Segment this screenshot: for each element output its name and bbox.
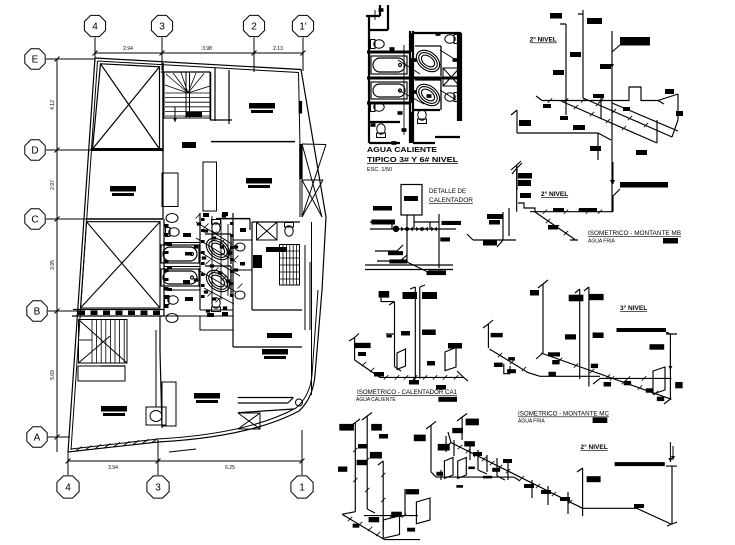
washer box bottom: [146, 407, 166, 425]
iso D label: [448, 343, 462, 349]
iso F label: [358, 444, 367, 449]
iso C label: [591, 364, 598, 368]
wall right rooms left: [251, 222, 253, 310]
bed mid-right room: [246, 178, 272, 188]
iso B label: [487, 214, 503, 219]
svg-text:4: 4: [92, 22, 98, 33]
bed left-middle room: [110, 186, 136, 196]
wall washer room right: [232, 310, 234, 347]
bathroom wall center-left: [199, 213, 201, 310]
svg-text:CALENTADOR: CALENTADOR: [429, 197, 474, 204]
ac corner shower 1: [412, 46, 444, 76]
pipe riser dots bathroom left: [165, 218, 234, 308]
iso A label: [623, 107, 630, 111]
iso F label: [379, 434, 388, 439]
bathroom cross ticks: [196, 214, 243, 303]
iso B label: [489, 220, 500, 225]
iso E label: [473, 452, 482, 456]
closet pier center: [203, 162, 217, 211]
wall right pier: [304, 245, 306, 330]
iso A label: [600, 64, 611, 69]
ac valve marks: [371, 8, 458, 145]
bathroom wall bottom: [200, 309, 233, 311]
svg-text:D: D: [31, 146, 38, 157]
sink left lower: [166, 314, 178, 323]
iso A label: [553, 70, 564, 75]
iso F label: [338, 467, 347, 472]
pipe to washer: [155, 330, 157, 407]
grid line 3 top leader: [161, 38, 163, 71]
iso E label: [541, 490, 551, 494]
bathtub lower: [161, 269, 199, 286]
iso F label: [357, 460, 368, 465]
iso B label: [483, 240, 497, 246]
svg-text:5.69: 5.69: [50, 370, 56, 380]
iso D label: [374, 372, 384, 377]
calentador label below: [427, 271, 447, 275]
svg-text:4: 4: [65, 483, 71, 494]
iso D label: [387, 335, 392, 338]
ac toilet 2: [371, 103, 385, 112]
wall duct left: [214, 68, 216, 121]
iso E label: [436, 472, 443, 476]
iso D junction ticks: [362, 362, 458, 380]
iso A label: [570, 52, 581, 57]
svg-text:2.13: 2.13: [273, 46, 283, 52]
wall bottom-middle vertical: [160, 351, 162, 428]
svg-text:ISOMETRICO - MONTANTE MC: ISOMETRICO - MONTANTE MC: [518, 411, 610, 418]
wall below duct: [210, 119, 232, 121]
iso C label diag: [548, 352, 560, 356]
iso D label: [401, 331, 410, 336]
iso A label: [593, 94, 604, 98]
bottom dimension line: [66, 459, 305, 464]
wall bottom rooms top: [233, 346, 302, 348]
grid bubble 1 bottom: [291, 476, 313, 498]
iso E label: [456, 485, 463, 488]
calentador valves: [393, 226, 437, 232]
grid line E leader: [46, 58, 95, 60]
grid line B leader: [48, 310, 80, 312]
top dimension line: [93, 51, 306, 56]
iso D pipes: [349, 285, 468, 384]
calentador label left: [372, 220, 396, 225]
closet bottom-middle: [162, 382, 176, 426]
iso C pipes: [483, 280, 677, 404]
wall room divider y142: [211, 141, 295, 143]
svg-text:DETALLE DE: DETALLE DE: [429, 188, 466, 195]
wall right rooms top: [252, 221, 300, 223]
corner shower upper: [202, 234, 234, 264]
iso C label: [593, 333, 604, 339]
iso A label: [550, 13, 562, 19]
iso A riser arrow 1: [610, 52, 614, 68]
iso C label: [604, 382, 611, 387]
staircase bottom-left: [79, 320, 128, 364]
calentador label left2: [373, 206, 392, 211]
iso E label: [524, 484, 534, 488]
shelf right room lower: [267, 333, 292, 338]
grid line C leader: [46, 218, 90, 220]
ac toilet 6: [377, 124, 386, 138]
wall C left: [86, 218, 163, 220]
wall stair top: [161, 71, 210, 73]
iso A label: [519, 120, 531, 126]
toilet center upper: [212, 220, 221, 234]
iso D label flag: [355, 343, 371, 348]
bed bottom-left room: [101, 406, 127, 416]
bathroom wall right 2: [233, 269, 252, 271]
bathroom wall center-right: [232, 213, 234, 310]
iso E label: [560, 497, 570, 501]
iso B pipes: [467, 161, 620, 247]
iso E label: [438, 444, 450, 451]
grid bubble 4 bottom: [57, 476, 79, 498]
plumbing overlay pipes bathroom: [196, 216, 240, 306]
table center hall: [182, 142, 196, 148]
svg-text:1': 1': [299, 22, 307, 33]
wall band at grid B with windows: [72, 310, 164, 317]
iso B junction ticks: [543, 210, 602, 236]
ac corner shower 2: [412, 80, 444, 110]
grid line 4 bottom leader: [67, 450, 69, 475]
iso B label: [520, 193, 531, 198]
grid bubble C: [25, 209, 45, 229]
iso E label: [503, 459, 512, 463]
left dimension line: [55, 57, 60, 453]
building inner wall line: [71, 61, 318, 450]
wall right pier2: [309, 262, 311, 330]
wall right of center y219: [216, 218, 250, 220]
iso C label: [508, 357, 515, 360]
wall center vertical upper: [162, 152, 164, 219]
iso C label: [589, 294, 604, 300]
iso D label: [409, 380, 419, 385]
wall jog: [249, 219, 251, 230]
svg-text:1: 1: [299, 483, 305, 494]
svg-text:3° NIVEL: 3° NIVEL: [620, 304, 647, 312]
sink left upper: [166, 214, 178, 223]
iso E pipes: [426, 414, 677, 527]
svg-text:3.95: 3.95: [50, 260, 56, 270]
calentador tank: [401, 185, 422, 216]
ac toilet 1: [371, 40, 385, 49]
iso D label: [403, 292, 418, 299]
iso E label: [492, 468, 500, 472]
grid line 2 top leader: [253, 38, 255, 73]
iso F label: [407, 528, 415, 532]
iso B big label: [620, 182, 668, 188]
iso C thick bar: [617, 328, 667, 332]
extra fixture marks bathroom: [167, 212, 246, 317]
building outer wall: [68, 58, 326, 452]
toilet left upper: [166, 228, 180, 237]
calentador piping: [365, 214, 456, 273]
iso A label: [587, 18, 602, 24]
ac detail bathtub 1: [371, 56, 407, 74]
x-braced duct bathroom: [257, 222, 278, 240]
sink center: [235, 243, 245, 251]
agua caliente detail walls: [366, 5, 461, 143]
iso C label: [569, 295, 584, 302]
iso B label box right: [663, 238, 678, 244]
svg-text:2.97: 2.97: [50, 180, 56, 190]
iso B riser arrow: [611, 162, 615, 184]
svg-text:3: 3: [159, 22, 165, 33]
x-braced strip bottom-left: [238, 413, 260, 429]
iso C label: [549, 372, 556, 376]
counter right room 2: [253, 255, 262, 268]
grid line 4 top leader: [94, 38, 96, 63]
svg-text:3.98: 3.98: [202, 46, 212, 52]
iso A riser arrow 2: [610, 166, 614, 184]
iso F label: [406, 489, 419, 494]
grid line 1' top leader: [302, 38, 304, 72]
bathtub upper: [161, 245, 199, 263]
iso E label: [587, 476, 601, 482]
ac toilet 5: [418, 110, 427, 124]
grid bubble D: [25, 140, 45, 160]
iso C label box right: [593, 417, 608, 423]
ac x duct: [443, 68, 460, 86]
iso E label: [464, 441, 475, 446]
wall thick D band: [91, 148, 163, 151]
iso C label: [650, 344, 665, 350]
bed top-right room: [249, 103, 275, 113]
iso C label: [565, 334, 576, 339]
grid bubble 1' top: [292, 15, 313, 36]
iso C label: [552, 360, 559, 364]
iso F label: [391, 512, 402, 517]
bathroom wall below: [164, 315, 233, 317]
x-brace small mid: [169, 449, 196, 452]
svg-text:AGUA FRIA: AGUA FRIA: [518, 419, 545, 425]
svg-text:2° NIVEL: 2° NIVEL: [530, 36, 557, 44]
iso C label: [624, 381, 631, 385]
iso D label box right: [438, 397, 457, 402]
iso C label: [530, 290, 539, 296]
iso F label: [353, 524, 360, 528]
inner right wall lower: [311, 222, 313, 395]
iso B small arrow on pipe: [578, 208, 592, 212]
ac detail bathtub 2: [371, 82, 407, 99]
svg-text:E: E: [32, 55, 39, 66]
bathroom wall tub divider 1: [164, 242, 200, 244]
toilet left lower: [165, 296, 179, 305]
iso E label: [466, 419, 479, 426]
iso C riser arrow 1: [668, 350, 672, 370]
svg-text:AGUA CALIENTE: AGUA CALIENTE: [356, 397, 396, 403]
iso A label: [636, 150, 647, 155]
toilet center lower: [212, 298, 221, 312]
bed bottom-middle room: [194, 393, 220, 403]
grid line A leader: [48, 436, 70, 438]
grid bubble 2 top: [243, 15, 264, 36]
iso A junction ticks: [548, 98, 648, 130]
iso A big label: [620, 37, 650, 46]
iso D label: [422, 292, 437, 299]
grid bubble 3 top: [151, 15, 172, 36]
iso A label: [560, 116, 568, 120]
iso A label: [543, 104, 551, 108]
iso B label: [548, 225, 558, 230]
shelf grill right room: [280, 245, 300, 286]
right wall window bars: [299, 101, 303, 179]
svg-text:ESC. 1/50: ESC. 1/50: [367, 167, 392, 173]
iso F pipes: [342, 413, 430, 540]
grid line 1 bottom leader: [301, 430, 303, 475]
iso A label: [590, 146, 601, 151]
svg-text:3: 3: [155, 483, 161, 494]
bottom edge hatch marks: [76, 438, 158, 451]
iso F junction ticks: [348, 448, 406, 536]
svg-text:C: C: [31, 215, 38, 226]
ac toilet 4: [445, 93, 459, 102]
column circle bottom-right corner: [296, 399, 303, 406]
x-braced battered right wall: [302, 144, 326, 217]
iso A label: [665, 89, 674, 94]
iso F label: [339, 424, 354, 431]
iso B label: [518, 173, 532, 179]
svg-text:2: 2: [251, 22, 257, 33]
svg-text:AGUA FRIA: AGUA FRIA: [588, 239, 615, 245]
iso C label: [657, 397, 664, 401]
svg-text:2° NIVEL: 2° NIVEL: [581, 443, 608, 451]
iso C label: [494, 363, 503, 367]
x-braced shaft left-middle: [81, 222, 161, 308]
x-braced shaft top-left: [93, 64, 160, 149]
iso E label: [483, 476, 492, 479]
wall landing bottom: [101, 365, 125, 367]
iso C junction ticks: [498, 353, 658, 395]
iso B label: [553, 208, 564, 212]
grid bubble A: [27, 427, 47, 447]
stair arrow top: [173, 107, 177, 122]
svg-text:ISOMETRICO - MONTANTE MB: ISOMETRICO - MONTANTE MB: [588, 230, 681, 237]
svg-text:B: B: [34, 307, 41, 318]
iso C label: [507, 369, 516, 373]
svg-text:2° NIVEL: 2° NIVEL: [541, 190, 568, 198]
iso D label: [358, 352, 366, 356]
grid line D leader: [46, 149, 93, 151]
corner shower lower: [202, 266, 234, 296]
wall duct right: [228, 70, 230, 124]
plumbing overlay valve dots: [194, 214, 238, 312]
iso C label: [675, 382, 682, 388]
iso A pipes: [511, 10, 678, 212]
iso A label: [573, 125, 585, 130]
iso E label: [468, 467, 475, 470]
stair landing outline: [78, 366, 125, 381]
iso D label: [379, 291, 390, 298]
calentador label right2: [440, 237, 450, 241]
wall stair left: [162, 63, 164, 152]
iso C label: [646, 388, 653, 392]
grid bubble 4 top: [84, 15, 105, 36]
iso A label: [518, 180, 531, 186]
calentador label right: [442, 221, 462, 225]
iso B label tick: [579, 208, 597, 212]
bathroom wall tub bottom: [164, 289, 200, 291]
calentador label ll2: [389, 259, 407, 263]
iso E thick bar: [615, 462, 665, 466]
counter right room: [266, 247, 287, 252]
bed bottom-right room: [262, 349, 288, 359]
svg-text:TIPICO 3# Y 6# NIVEL: TIPICO 3# Y 6# NIVEL: [367, 155, 458, 164]
grid bubble E: [25, 49, 45, 69]
wall below B: [159, 316, 161, 352]
grid line 3 bottom leader: [157, 440, 159, 475]
iso F label: [369, 517, 380, 522]
svg-text:3.94: 3.94: [108, 465, 118, 471]
iso D label: [422, 330, 436, 336]
iso E cluster ticks: [458, 445, 572, 504]
iso D label: [436, 385, 446, 390]
iso D label: [427, 361, 435, 366]
wall bath left: [163, 219, 165, 316]
iso E label: [414, 435, 426, 442]
iso E label diag: [634, 504, 644, 508]
x-brace right wall lower: [302, 180, 323, 217]
staircase top (fan + treads): [164, 72, 210, 118]
ac overlay pipes: [375, 10, 456, 140]
iso F label: [370, 452, 382, 459]
svg-text:6.25: 6.25: [225, 465, 235, 471]
iso A label: [676, 111, 683, 116]
iso E riser arrow: [671, 446, 675, 460]
ac wall black fills: [367, 33, 462, 143]
bathroom wall tub divider 2: [164, 266, 200, 268]
svg-text:4.12: 4.12: [50, 100, 56, 110]
sink center2: [235, 291, 245, 299]
grid bubble 3 bottom: [147, 476, 169, 498]
svg-text:2.94: 2.94: [123, 46, 133, 52]
bathroom lower stub: [200, 316, 233, 330]
wall stair right: [210, 72, 212, 120]
iso C label feeder: [491, 333, 503, 337]
svg-text:A: A: [34, 433, 41, 444]
balcony band bottom-right: [238, 398, 294, 413]
bathroom wall right 1: [233, 239, 252, 241]
iso C riser arrow 2: [668, 442, 672, 462]
grid bubble B: [27, 301, 47, 321]
svg-text:AGUA CALIENTE: AGUA CALIENTE: [367, 145, 437, 154]
calentador label ll1: [388, 251, 403, 255]
closet pier left-center: [162, 173, 178, 207]
toilet right room: [285, 223, 294, 237]
iso E cluster extra pipes: [441, 436, 520, 481]
svg-text:ISOMETRICO - CALENTADOR CA1: ISOMETRICO - CALENTADOR CA1: [357, 389, 458, 396]
iso F label: [371, 424, 382, 431]
ac toilet 3: [445, 35, 459, 44]
wall right rooms bottom: [252, 309, 302, 311]
iso E label: [452, 428, 463, 433]
